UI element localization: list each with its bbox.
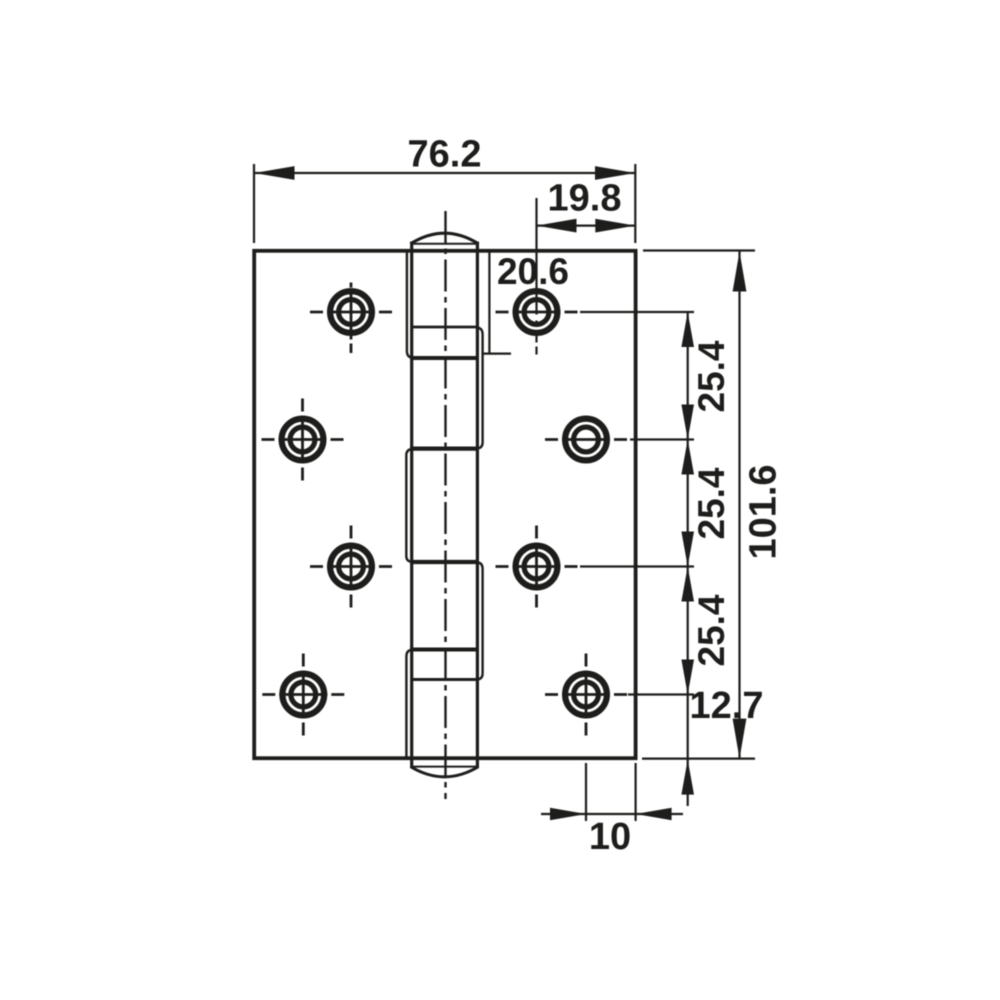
svg-text:20.6: 20.6 <box>497 251 569 292</box>
svg-text:19.8: 19.8 <box>548 178 622 220</box>
svg-text:10: 10 <box>589 816 631 858</box>
svg-text:25.4: 25.4 <box>691 594 732 666</box>
svg-text:25.4: 25.4 <box>691 467 732 539</box>
svg-text:12.7: 12.7 <box>690 685 764 727</box>
svg-text:25.4: 25.4 <box>691 340 732 412</box>
svg-text:101.6: 101.6 <box>743 464 785 559</box>
svg-text:76.2: 76.2 <box>408 134 482 176</box>
